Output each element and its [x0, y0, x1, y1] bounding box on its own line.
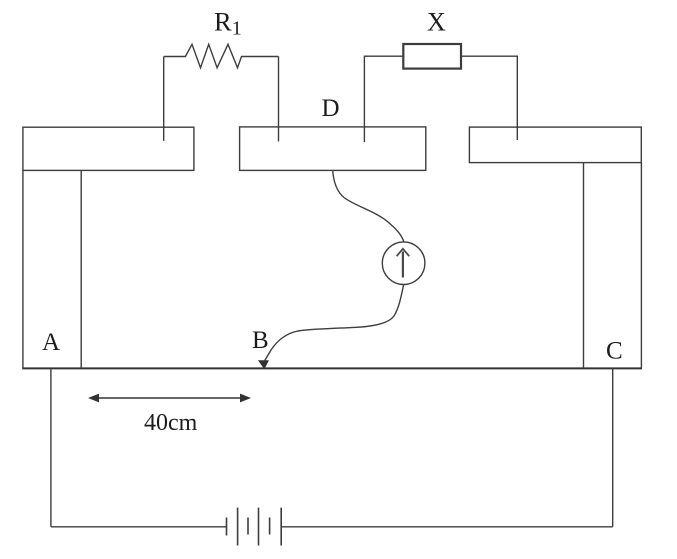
galvanometer G	[382, 242, 425, 285]
wire R1 right lead down into strip D	[278, 57, 280, 142]
battery cells	[227, 508, 282, 546]
resistor R1	[164, 44, 279, 68]
wire X right lead down into right strip	[461, 56, 517, 140]
copper strip middle (node D block)	[240, 127, 426, 170]
wire left inner post down to A	[80, 170, 82, 368]
galvanometer needle arrow	[397, 249, 410, 278]
wire battery right lead	[281, 526, 613, 528]
wire right inner post down to C	[583, 163, 585, 369]
svg-text:X: X	[427, 8, 446, 37]
wire X left lead down into strip D	[364, 56, 403, 142]
svg-text:B: B	[252, 327, 269, 354]
copper strip left (node A block)	[23, 127, 194, 170]
bridge wire A-B-C	[22, 367, 642, 369]
wire from C down to battery	[612, 368, 614, 526]
svg-text:40cm: 40cm	[144, 410, 198, 436]
wire curved from strip D to galvanometer	[333, 171, 404, 242]
wire left outer edge down	[22, 170, 24, 368]
wire R1 left lead down into left strip	[163, 57, 165, 141]
wire curved from galvanometer to jockey at B	[265, 284, 404, 360]
svg-text:D: D	[322, 95, 340, 122]
svg-text:R1: R1	[214, 7, 242, 40]
resistor X	[403, 44, 461, 69]
svg-text:A: A	[42, 329, 60, 356]
dimension arrow 40cm	[88, 394, 251, 403]
wire battery left lead	[51, 526, 227, 528]
jockey arrowhead at B	[258, 360, 269, 369]
copper strip right (node C block)	[469, 127, 641, 163]
wire from A down to battery	[50, 368, 52, 526]
svg-text:C: C	[606, 338, 623, 365]
wire right outer edge down	[640, 163, 642, 369]
